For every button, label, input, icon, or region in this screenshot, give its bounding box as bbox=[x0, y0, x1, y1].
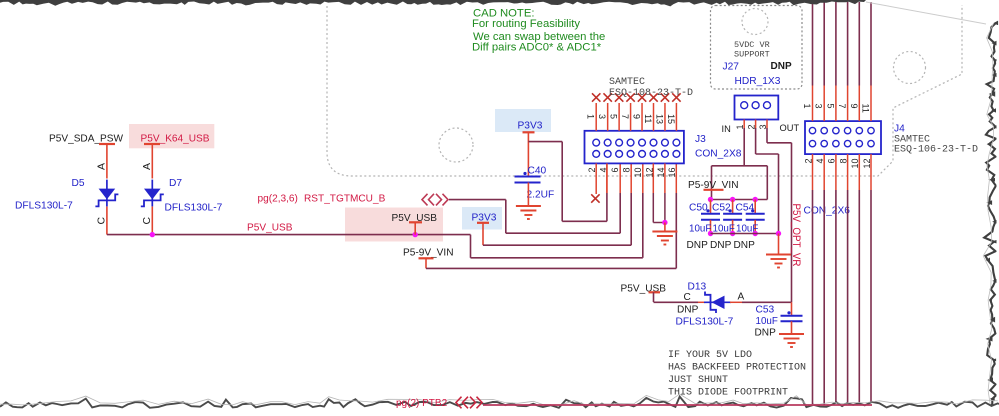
svg-text:7: 7 bbox=[620, 114, 630, 119]
svg-text:10uF: 10uF bbox=[689, 224, 711, 235]
svg-text:pg(2) PTB2: pg(2) PTB2 bbox=[396, 398, 448, 409]
svg-text:DNP: DNP bbox=[687, 240, 709, 251]
svg-text:C: C bbox=[684, 292, 691, 303]
svg-text:CON_2X8: CON_2X8 bbox=[695, 149, 742, 160]
svg-text:DFLS130L-7: DFLS130L-7 bbox=[165, 203, 223, 214]
svg-text:10: 10 bbox=[633, 168, 643, 178]
svg-text:8: 8 bbox=[838, 159, 848, 164]
svg-text:IN: IN bbox=[722, 124, 731, 134]
svg-text:6: 6 bbox=[610, 168, 620, 173]
svg-text:A: A bbox=[96, 163, 108, 170]
svg-text:IF YOUR 5V LDO: IF YOUR 5V LDO bbox=[668, 350, 752, 361]
svg-text:1: 1 bbox=[802, 104, 812, 109]
svg-text:8: 8 bbox=[621, 168, 631, 173]
svg-text:HAS BACKFEED PROTECTION: HAS BACKFEED PROTECTION bbox=[668, 363, 806, 374]
svg-text:Diff pairs ADC0* & ADC1*: Diff pairs ADC0* & ADC1* bbox=[472, 42, 602, 54]
svg-text:C50: C50 bbox=[689, 203, 708, 214]
svg-text:ESQ-106-23-T-D: ESQ-106-23-T-D bbox=[894, 145, 978, 156]
svg-text:7: 7 bbox=[837, 104, 847, 109]
svg-text:3: 3 bbox=[814, 104, 824, 109]
svg-text:SUPPORT: SUPPORT bbox=[734, 50, 770, 60]
svg-text:5VDC VR: 5VDC VR bbox=[734, 40, 770, 50]
svg-text:P3V3: P3V3 bbox=[518, 121, 543, 132]
svg-text:15: 15 bbox=[666, 114, 676, 124]
svg-text:P5-9V_VIN: P5-9V_VIN bbox=[403, 248, 454, 259]
svg-text:6: 6 bbox=[827, 159, 837, 164]
svg-text:HDR_1X3: HDR_1X3 bbox=[735, 76, 781, 87]
svg-text:JUST SHUNT: JUST SHUNT bbox=[668, 375, 728, 386]
svg-text:RST_TGTMCU_B: RST_TGTMCU_B bbox=[304, 194, 386, 205]
svg-text:C: C bbox=[96, 217, 108, 225]
svg-text:10: 10 bbox=[850, 159, 860, 169]
svg-text:1: 1 bbox=[586, 114, 596, 119]
svg-text:D5: D5 bbox=[72, 178, 85, 189]
svg-text:5: 5 bbox=[609, 114, 619, 119]
svg-text:For routing Feasibility: For routing Feasibility bbox=[472, 18, 580, 30]
svg-text:D7: D7 bbox=[169, 178, 182, 189]
svg-text:4: 4 bbox=[815, 159, 825, 164]
svg-text:pg(2,3,6): pg(2,3,6) bbox=[258, 194, 298, 205]
svg-text:10uF: 10uF bbox=[756, 316, 778, 327]
svg-text:3: 3 bbox=[597, 114, 607, 119]
svg-text:J27: J27 bbox=[723, 62, 740, 73]
svg-text:J3: J3 bbox=[695, 134, 706, 145]
svg-text:THIS DIODE FOOTPRINT: THIS DIODE FOOTPRINT bbox=[668, 388, 788, 399]
svg-text:9: 9 bbox=[632, 114, 642, 119]
svg-text:12: 12 bbox=[862, 159, 872, 169]
svg-text:DNP: DNP bbox=[771, 61, 792, 72]
svg-text:ESQ-108-23-T-D: ESQ-108-23-T-D bbox=[609, 88, 693, 99]
svg-text:DNP: DNP bbox=[755, 328, 777, 339]
svg-text:C52: C52 bbox=[712, 203, 731, 214]
svg-text:9: 9 bbox=[849, 104, 859, 109]
svg-text:A: A bbox=[141, 163, 153, 170]
svg-text:SAMTEC: SAMTEC bbox=[609, 77, 645, 88]
svg-text:P5V_OPT_VR: P5V_OPT_VR bbox=[790, 204, 802, 267]
svg-text:CON_2X6: CON_2X6 bbox=[804, 206, 851, 217]
svg-text:P5V_USB: P5V_USB bbox=[247, 223, 293, 234]
svg-text:DNP: DNP bbox=[734, 240, 756, 251]
svg-text:DNP: DNP bbox=[710, 240, 732, 251]
svg-text:D13: D13 bbox=[688, 282, 707, 293]
svg-text:DFLS130L-7: DFLS130L-7 bbox=[676, 317, 734, 328]
svg-text:10uF: 10uF bbox=[736, 224, 758, 235]
svg-text:2.2UF: 2.2UF bbox=[527, 190, 555, 201]
svg-text:J4: J4 bbox=[894, 124, 905, 135]
svg-text:16: 16 bbox=[667, 168, 677, 178]
svg-text:A: A bbox=[738, 292, 745, 303]
svg-text:DNP: DNP bbox=[677, 305, 699, 316]
svg-text:10uF: 10uF bbox=[713, 224, 735, 235]
svg-text:5: 5 bbox=[825, 104, 835, 109]
svg-text:C: C bbox=[141, 217, 153, 225]
svg-text:11: 11 bbox=[861, 104, 871, 113]
svg-text:11: 11 bbox=[643, 114, 653, 123]
svg-text:2: 2 bbox=[803, 159, 813, 164]
svg-text:C53: C53 bbox=[756, 305, 775, 316]
svg-text:13: 13 bbox=[654, 114, 664, 124]
svg-text:P5V_SDA_PSW: P5V_SDA_PSW bbox=[49, 134, 124, 145]
svg-text:OUT: OUT bbox=[780, 123, 800, 133]
svg-text:DFLS130L-7: DFLS130L-7 bbox=[15, 201, 73, 212]
svg-text:C40: C40 bbox=[528, 166, 547, 177]
svg-text:P5V_K64_USB: P5V_K64_USB bbox=[141, 134, 210, 145]
